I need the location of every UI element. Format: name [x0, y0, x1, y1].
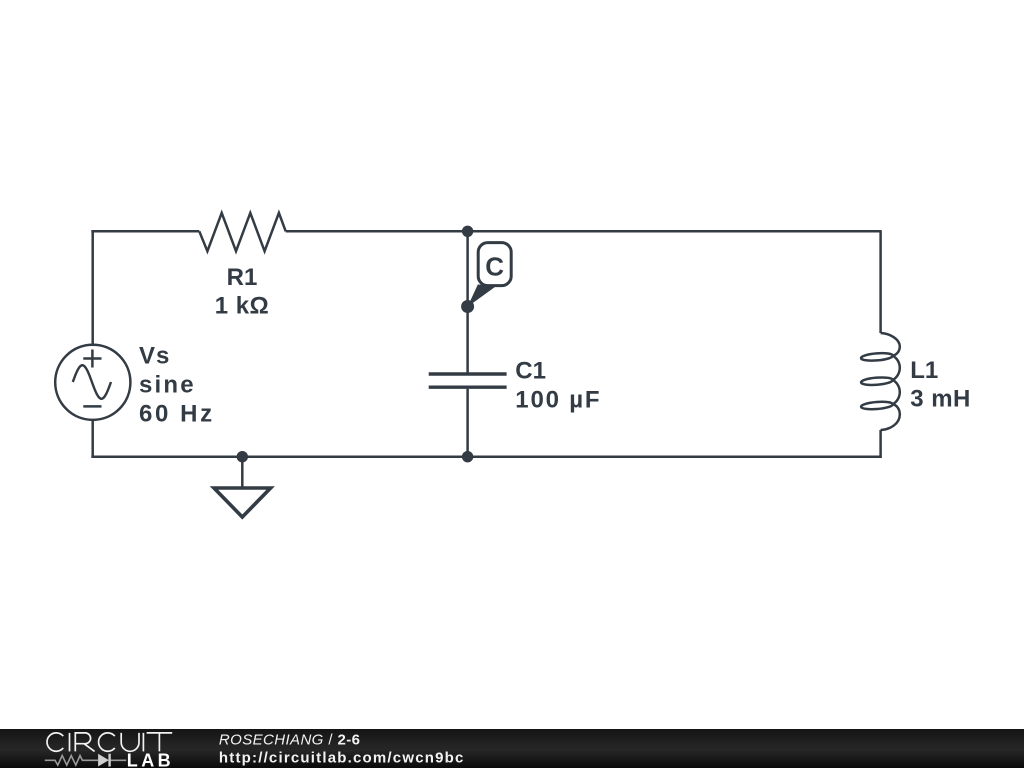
wire bottom [91, 455, 881, 458]
svg-text:Vs: Vs [139, 343, 170, 370]
svg-text:R1: R1 [227, 264, 258, 291]
ground stub [241, 457, 244, 487]
svg-text:sine: sine [139, 372, 196, 399]
node dot top junction [462, 226, 473, 237]
capacitor C1 plates [429, 372, 507, 375]
node dot bottom junction [462, 451, 473, 462]
node dot ground junction [237, 451, 248, 462]
wire left lower [91, 420, 94, 458]
capacitor branch wire lower [466, 389, 469, 457]
CircuitLab logo CIRCUIT [47, 733, 172, 752]
node C callout box [478, 243, 511, 286]
node dot C label [461, 300, 474, 313]
svg-text:http://circuitlab.com/cwcn9bc: http://circuitlab.com/cwcn9bc [219, 750, 465, 767]
wire right upper [879, 230, 882, 333]
wire top-right segment [286, 230, 881, 233]
svg-text:3 mH: 3 mH [910, 386, 971, 413]
svg-text:L1: L1 [910, 357, 938, 384]
logo resistor-diode glyph [45, 756, 126, 766]
voltage source V1 circle [55, 345, 130, 420]
node C callout tail [468, 285, 497, 307]
plus sign [83, 357, 101, 360]
capacitor branch wire upper [466, 231, 469, 373]
ground triangle [214, 488, 271, 517]
inductor L1 coil [861, 333, 900, 430]
wire right lower [879, 430, 882, 458]
wire left upper [91, 230, 94, 345]
wire top-left segment [91, 230, 199, 233]
svg-text:C1: C1 [515, 358, 546, 385]
resistor R1 [199, 213, 285, 251]
logo diode bar [108, 754, 110, 767]
svg-text:100 µF: 100 µF [515, 387, 601, 414]
svg-text:1 kΩ: 1 kΩ [215, 293, 270, 320]
logo diode triangle [98, 754, 109, 767]
svg-text:60 Hz: 60 Hz [139, 401, 215, 428]
minus sign [83, 405, 101, 408]
svg-text:LAB: LAB [127, 750, 174, 768]
svg-text:ROSECHIANG / 2-6: ROSECHIANG / 2-6 [219, 732, 360, 749]
svg-text:C: C [485, 251, 504, 281]
footer bar [0, 729, 1024, 768]
sine symbol [73, 365, 111, 399]
